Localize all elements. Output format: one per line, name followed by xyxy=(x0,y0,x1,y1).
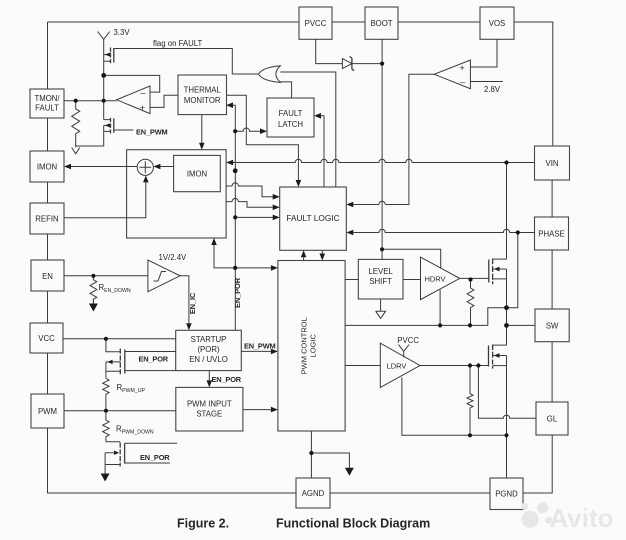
block THERMAL MONITOR xyxy=(178,75,227,115)
svg-text:+: + xyxy=(460,63,465,73)
junction VCC node xyxy=(104,337,108,341)
wire flag-on-FAULT / fault bus xyxy=(114,49,259,75)
svg-text:GL: GL xyxy=(547,415,558,424)
svg-text:PWM: PWM xyxy=(38,407,57,416)
wire PWM net xyxy=(64,410,176,412)
wire THERMAL MONITOR output to FAULT LOGIC top xyxy=(227,95,299,183)
wire VOS box to comparator plus xyxy=(470,39,497,67)
svg-text:MONITOR: MONITOR xyxy=(184,96,221,105)
svg-text:EN_POR: EN_POR xyxy=(140,453,170,462)
svg-text:LATCH: LATCH xyxy=(278,120,303,129)
wire STARTUP EN_POR output to PWM INPUT STAGE xyxy=(208,371,210,381)
wire AGND to PGND xyxy=(330,492,490,494)
wire LEVEL SHIFT to HDRV xyxy=(403,279,421,281)
wire bus branch to current-monitor block and PWM CONTROL LOGIC xyxy=(214,245,271,268)
pin box PGND xyxy=(490,478,523,510)
svg-text:THERMAL: THERMAL xyxy=(184,86,222,95)
junction gate resistor on SW rail xyxy=(468,323,472,327)
svg-text:PWM CONTROL: PWM CONTROL xyxy=(300,317,309,374)
driver LDRV xyxy=(380,343,420,387)
wire PWM CONTROL LOGIC to FAULT LOGIC bottom xyxy=(303,257,305,260)
junction LDRV gate node b xyxy=(476,363,480,367)
svg-text:TMON/: TMON/ xyxy=(34,94,60,103)
wire M2 source to PGND xyxy=(506,356,508,479)
wire PWM CONTROL LOGIC to AGND xyxy=(310,431,312,478)
transistor M2 (low-side FET) xyxy=(489,345,507,369)
supply symbol PVCC (LDRV) xyxy=(397,336,419,358)
wire THERMAL MONITOR to current-monitor block xyxy=(201,115,203,143)
pin box PVCC xyxy=(299,7,332,39)
junction EN_POR bus to FAULT LOGIC xyxy=(233,215,237,219)
ground (Q4 source) xyxy=(101,474,110,482)
wire SW return rail xyxy=(345,308,506,326)
pin box PHASE xyxy=(535,217,569,250)
junction PHASE line xyxy=(516,230,520,234)
svg-text:SW: SW xyxy=(546,321,559,330)
svg-text:PHASE: PHASE xyxy=(538,230,564,239)
wire VIN to PHASE xyxy=(551,180,553,217)
svg-text:Avito: Avito xyxy=(550,503,614,533)
pin box VCC xyxy=(30,323,63,353)
block current-monitor outer box xyxy=(127,150,227,238)
wire zener cathode to BOOT line xyxy=(352,63,382,65)
wire AGND branch to ground xyxy=(311,453,349,468)
wire current-monitor block to FAULT LOGIC input a xyxy=(226,183,273,197)
svg-text:2.8V: 2.8V xyxy=(484,85,501,94)
wire LDRV output to low-side gate xyxy=(420,365,489,367)
svg-text:flag on FAULT: flag on FAULT xyxy=(153,39,202,48)
pin box AGND xyxy=(296,478,330,508)
wire VCC net xyxy=(63,338,176,340)
svg-text:EN_POR: EN_POR xyxy=(233,277,242,308)
wire FAULT LOGIC to FAULT LATCH right xyxy=(321,116,324,187)
svg-text:AGND: AGND xyxy=(302,489,325,498)
block LEVEL SHIFT xyxy=(358,259,403,299)
svg-text:–: – xyxy=(460,77,465,87)
block FAULT LOGIC xyxy=(280,187,347,250)
block PWM CONTROL LOGIC xyxy=(278,261,345,432)
svg-text:IMON: IMON xyxy=(187,170,207,179)
driver HDRV xyxy=(421,257,460,300)
wire FAULT LATCH top to OR gate input xyxy=(280,82,291,98)
svg-text:EN_PWM: EN_PWM xyxy=(244,341,276,350)
transistor Q4 (PWM EN_POR FET) xyxy=(105,442,177,474)
wire fault bus to FAULT LOGIC input c xyxy=(235,216,273,218)
wire PWM CONTROL LOGIC to LEVEL SHIFT xyxy=(345,279,358,281)
svg-text:–: – xyxy=(141,88,146,98)
svg-text:PVCC: PVCC xyxy=(397,336,419,345)
op-amp U1 (TMON comparator) xyxy=(117,86,150,114)
wire current-monitor block to FAULT LOGIC input b xyxy=(226,198,273,207)
wire PHASE to SW xyxy=(551,250,553,309)
svg-text:EN / UVLO: EN / UVLO xyxy=(189,355,228,364)
svg-text:LOGIC: LOGIC xyxy=(309,334,318,358)
svg-text:IMON: IMON xyxy=(37,163,57,172)
wire SW to GL xyxy=(551,342,553,402)
wire PWM CONTROL LOGIC to LDRV xyxy=(345,365,380,367)
junction comparator output node xyxy=(102,99,106,103)
svg-text:EN_PWM: EN_PWM xyxy=(136,127,168,136)
or-gate U3 (fault OR, output left) xyxy=(259,66,281,83)
junction HDRV return on SW rail xyxy=(438,323,442,327)
wire VIN sense line to current-monitor block xyxy=(233,159,535,162)
svg-text:PWM INPUT: PWM INPUT xyxy=(187,400,232,409)
pin box VOS xyxy=(480,7,514,39)
pin box BOOT xyxy=(365,7,398,39)
pin box EN xyxy=(31,260,64,291)
wire HDRV output to high-side gate xyxy=(460,277,489,279)
svg-text:BOOT: BOOT xyxy=(370,19,392,28)
junction AGND node xyxy=(309,451,313,455)
junction switch node a xyxy=(504,305,509,310)
resistor R5 (HDRV gate resistor) xyxy=(467,280,474,326)
resistor R2 (R EN_DOWN) xyxy=(90,276,131,304)
op-amp U2 (VOS comparator) xyxy=(434,60,470,89)
ground (TMON resistor) xyxy=(72,148,80,154)
transistor Q1 (3.3V flag pull-up FET) xyxy=(104,39,114,119)
pin box IMON xyxy=(30,151,64,182)
svg-text:3.3V: 3.3V xyxy=(114,28,131,37)
svg-text:LDRV: LDRV xyxy=(387,362,407,371)
wire TMON/FAULT to comparator xyxy=(64,100,117,102)
resistor R3 (R PWM_UP) xyxy=(103,378,146,410)
junction switch node b (SW tap) xyxy=(504,323,509,328)
wire GL sense line xyxy=(478,366,536,419)
svg-text:FAULT: FAULT xyxy=(35,104,59,113)
wire PVCC to zener anode xyxy=(316,39,343,63)
wire fault bus to FAULT LATCH left xyxy=(235,128,260,131)
junction PGND rail resistor xyxy=(468,433,472,437)
pin box VIN xyxy=(535,146,570,180)
wire VOS comparator output to FAULT LOGIC right xyxy=(353,74,434,204)
svg-text:HDRV: HDRV xyxy=(424,275,445,284)
pin box GL xyxy=(536,402,568,435)
svg-text:VIN: VIN xyxy=(546,159,559,168)
wire switch node to SW pin xyxy=(507,324,535,326)
svg-text:VOS: VOS xyxy=(489,19,505,28)
supply symbol 3.3V xyxy=(98,28,131,39)
transistor Q2 (EN_PWM FET) xyxy=(76,118,134,146)
junction VIN line to high-side drain xyxy=(504,160,508,164)
junction EN divider node xyxy=(91,274,95,278)
wire switch node column xyxy=(506,269,508,345)
wire fault bus arrow into THERMAL MONITOR right xyxy=(233,105,235,330)
comparator U4 (EN 1V/2.4V hysteresis) xyxy=(148,260,180,292)
junction PGND rail FET source xyxy=(504,433,508,437)
junction BOOT to HDRV xyxy=(380,247,384,251)
wire GL to PGND right xyxy=(523,435,552,493)
wire PWM INPUT STAGE output to PWM CONTROL LOGIC xyxy=(243,409,271,411)
transistor Q3 (VCC EN_POR FET) xyxy=(106,339,176,379)
ground (LEVEL SHIFT) xyxy=(376,299,386,318)
wire FAULT LOGIC top to OR gate input xyxy=(280,72,336,187)
svg-text:STARTUP: STARTUP xyxy=(191,335,227,344)
block FAULT LATCH xyxy=(267,98,314,137)
pin box PWM xyxy=(31,394,64,428)
block STARTUP (POR) EN/UVLO xyxy=(176,330,242,370)
wire REFIN to summing junction xyxy=(64,182,146,217)
svg-text:EN_POR: EN_POR xyxy=(212,375,242,384)
junction HDRV gate node xyxy=(468,277,472,281)
pin box SW xyxy=(535,309,569,342)
svg-text:REFIN: REFIN xyxy=(35,215,58,224)
svg-text:EN_POR: EN_POR xyxy=(139,354,169,363)
junction EN_POR bus mid xyxy=(233,168,238,173)
svg-text:+: + xyxy=(140,103,145,113)
wire left border and bottom border xyxy=(48,22,297,493)
wire EN_POR underline Q4 xyxy=(125,462,170,464)
svg-text:Figure 2.: Figure 2. xyxy=(177,517,229,531)
junction TMON resistor node xyxy=(74,99,78,103)
svg-text:1V/2.4V: 1V/2.4V xyxy=(159,253,188,262)
wire top border xyxy=(48,22,553,146)
pin box TMON/FAULT xyxy=(30,89,64,118)
resistor R1 (TMON pull-down) xyxy=(72,101,80,148)
junction BOOT zener node xyxy=(380,62,384,66)
ground (R EN_DOWN) xyxy=(89,299,98,311)
wire STARTUP EN_PWM output to PWM CONTROL LOGIC xyxy=(241,350,271,352)
wire BOOT line down to LEVEL SHIFT xyxy=(381,39,383,259)
wire PHASE sense line to FAULT LOGIC right xyxy=(353,229,534,232)
pin box REFIN xyxy=(30,203,64,234)
svg-text:EN_IC: EN_IC xyxy=(188,292,197,314)
resistor R6 (LDRV gate resistor) xyxy=(467,366,473,436)
wire PHASE branch to switch node xyxy=(507,233,518,308)
diode D1 (bootstrap zener) xyxy=(342,57,354,71)
summing junction xyxy=(137,159,153,175)
junction EN_POR bus to PWM CONTROL LOGIC xyxy=(233,266,237,270)
wire summing junction to IMON pin xyxy=(71,166,137,168)
wire comparator minus loop xyxy=(104,75,160,92)
block IMON inner xyxy=(174,155,221,191)
svg-text:LEVEL: LEVEL xyxy=(368,267,393,276)
svg-text:Functional Block Diagram: Functional Block Diagram xyxy=(276,517,430,531)
svg-text:STAGE: STAGE xyxy=(196,410,222,419)
watermark Avito xyxy=(521,502,613,533)
wire HDRV bottom rail xyxy=(439,290,441,326)
wire IMON inner to summing junction xyxy=(160,166,173,168)
svg-text:EN: EN xyxy=(42,272,53,281)
transistor M1 (high-side FET) xyxy=(489,259,507,285)
wire comparator minus to 2.8V xyxy=(470,81,503,83)
svg-text:PVCC: PVCC xyxy=(305,19,327,28)
svg-text:PGND: PGND xyxy=(495,490,518,499)
ground (AGND branch) xyxy=(345,468,354,476)
wire BOOT branch to HDRV supply xyxy=(382,249,441,268)
wire M1 drain to VIN line xyxy=(506,163,508,260)
junction flag pull-up node xyxy=(101,73,106,78)
svg-text:VCC: VCC xyxy=(38,334,55,343)
svg-text:(POR): (POR) xyxy=(197,345,219,354)
resistor R4 (R PWM_DOWN) xyxy=(103,411,154,442)
junction EN_POR bus to FAULT LATCH xyxy=(233,129,237,133)
wire EN_POR underline Q3 xyxy=(125,370,176,372)
wire EN input net xyxy=(64,275,148,277)
svg-text:FAULT LOGIC: FAULT LOGIC xyxy=(286,213,339,223)
wire LDRV bottom rail xyxy=(402,377,507,435)
svg-text:SHIFT: SHIFT xyxy=(369,277,392,286)
wire EN comparator output EN_IC xyxy=(180,276,189,324)
junction PWM node xyxy=(104,409,108,413)
svg-text:FAULT: FAULT xyxy=(279,109,303,118)
wire comparator plus to THERMAL MONITOR xyxy=(150,95,178,107)
junction LDRV gate node a xyxy=(468,363,472,367)
block PWM INPUT STAGE xyxy=(176,387,243,431)
